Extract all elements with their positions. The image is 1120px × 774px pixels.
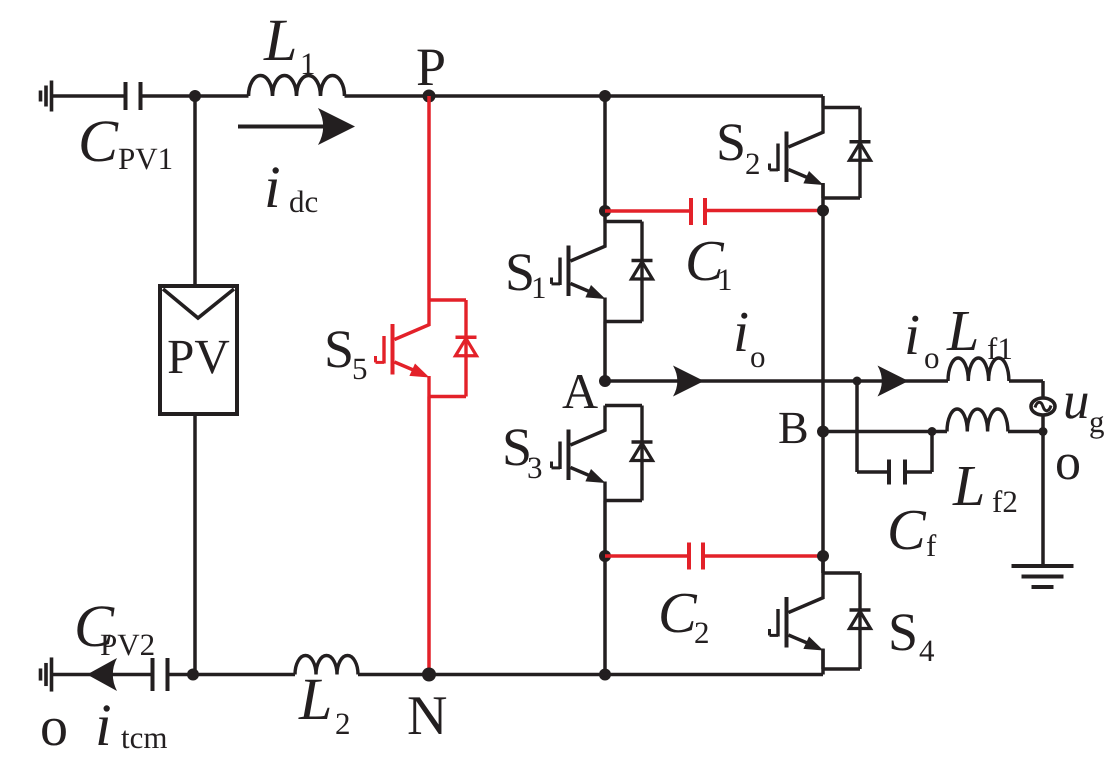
label P (416, 37, 446, 97)
node junction C1 tap (right) (817, 205, 829, 217)
capacitor C_f branch right (905, 432, 932, 473)
label i_tcm (95, 692, 168, 758)
svg-text:i: i (733, 299, 749, 364)
label S1 (505, 242, 547, 305)
AC grid source u_g (1031, 398, 1055, 415)
ground (top-left) (41, 81, 52, 112)
svg-text:C: C (78, 108, 119, 174)
arrow i_dc (238, 108, 355, 145)
wire L_f2 to grid source (1008, 430, 1043, 434)
node junction top rail at S1 branch (599, 90, 611, 102)
svg-text:L: L (298, 666, 332, 732)
svg-text:tcm: tcm (121, 720, 168, 755)
svg-text:A: A (562, 363, 598, 419)
transistor S2 (IGBT with antiparallel diode) (770, 96, 871, 198)
svg-text:u: u (1063, 372, 1090, 430)
wire S3 branch to bottom rail (603, 556, 607, 675)
svg-text:1: 1 (531, 270, 547, 305)
node B (817, 426, 829, 438)
inductor L1 (249, 76, 345, 97)
capacitor C1 (red) wire left (605, 209, 691, 213)
svg-text:B: B (778, 402, 809, 453)
arrow i_o (first) (673, 366, 704, 397)
label S4 (888, 602, 935, 668)
inductor L_f1 (948, 358, 1009, 381)
label C_f (887, 497, 937, 563)
wire node B to L_f2 (823, 430, 947, 434)
svg-text:1: 1 (717, 262, 733, 297)
arrow i_o (second) (878, 366, 909, 397)
capacitor C2 (red) wire left (605, 554, 689, 558)
svg-text:2: 2 (745, 146, 761, 181)
node junction C1 tap (left) (599, 205, 611, 217)
svg-text:N: N (407, 685, 447, 747)
capacitor C2 (red) wire right (703, 554, 823, 558)
svg-text:o: o (40, 696, 68, 758)
svg-text:f2: f2 (992, 484, 1018, 519)
ground (bottom-left) (41, 657, 52, 691)
capacitor C_PV2 (153, 658, 168, 691)
label PV (167, 329, 230, 384)
capacitor C1 (red) wire right (705, 209, 823, 213)
label C1 (685, 228, 733, 297)
wire S5 emitter (red) to N (427, 397, 431, 675)
svg-text:i: i (904, 302, 920, 367)
svg-text:4: 4 (919, 633, 935, 668)
label L_f1 (946, 298, 1013, 366)
inductor L2 (295, 656, 358, 675)
svg-text:C: C (887, 497, 927, 562)
wire bottom rail: C_PV2 to junction (168, 673, 196, 677)
node junction C2 tap (left) (599, 550, 611, 562)
wire top rail: L1 to node P (345, 94, 430, 98)
label L1 (263, 7, 316, 81)
capacitor C_f branch left (857, 381, 889, 472)
ground (bottom-right) (1012, 566, 1074, 587)
label o (grid neutral) (1055, 434, 1081, 491)
svg-text:2: 2 (694, 615, 710, 650)
svg-text:S: S (888, 602, 918, 662)
svg-text:f1: f1 (987, 331, 1013, 366)
wire top rail: junction to L1 (195, 94, 249, 98)
capacitor C1 (red) plates (691, 198, 705, 225)
label L2 (298, 666, 351, 741)
svg-text:o: o (1055, 434, 1081, 491)
label N (407, 685, 447, 747)
node junction at PV branch bottom (187, 669, 199, 681)
svg-text:L: L (946, 298, 979, 363)
svg-text:PV: PV (167, 329, 230, 384)
label C_PV1 (78, 108, 173, 176)
svg-text:f: f (926, 528, 937, 563)
PV panel box (160, 286, 237, 414)
transistor S5 (red IGBT with antiparallel diode) (376, 300, 477, 397)
label A (562, 363, 598, 419)
wire S4 emitter to bottom rail (821, 649, 825, 675)
transistor S1 (IGBT with antiparallel diode) (552, 222, 653, 322)
node N (422, 668, 436, 682)
wire bottom rail: N to S4 corner (429, 673, 823, 677)
svg-text:S: S (716, 112, 746, 172)
svg-text:3: 3 (527, 450, 543, 485)
node junction at PV branch top (189, 90, 201, 102)
wire top rail: ground to C_PV1 (52, 94, 126, 98)
node junction C_f tap (right) (928, 427, 937, 436)
inductor L_f2 (947, 409, 1008, 432)
svg-text:PV1: PV1 (118, 141, 173, 176)
svg-text:C: C (658, 580, 698, 645)
node junction C2 tap (right) (817, 550, 829, 562)
label C2 (658, 580, 710, 650)
svg-text:i: i (264, 154, 281, 220)
svg-text:i: i (95, 692, 112, 758)
label i_dc (264, 154, 318, 220)
label L_f2 (952, 453, 1018, 519)
label S2 (716, 112, 761, 181)
label i_o (first) (733, 299, 766, 374)
label i_o (second) (904, 302, 940, 375)
svg-text:o: o (750, 339, 766, 374)
svg-text:L: L (952, 453, 985, 518)
svg-text:PV2: PV2 (100, 627, 155, 662)
wire L_f1 to grid source corner (1009, 381, 1043, 399)
wire S1 emitter to node A (603, 322, 607, 382)
wire PV branch bottom (193, 414, 197, 675)
node junction bottom rail at S3 branch (599, 669, 611, 681)
svg-text:g: g (1089, 404, 1105, 439)
label B (778, 402, 809, 453)
capacitor C2 (red) plates (689, 543, 703, 570)
svg-text:1: 1 (300, 46, 316, 81)
wire S5 collector (red) from P (427, 96, 431, 300)
node junction C_f tap (left) (853, 377, 862, 386)
node junction at grid source (1039, 427, 1048, 436)
svg-text:o: o (924, 340, 940, 375)
wire output node A to L_f1 (605, 379, 948, 383)
capacitor C_PV1 (126, 82, 141, 110)
svg-text:S: S (324, 319, 354, 379)
svg-text:P: P (416, 37, 446, 97)
svg-text:dc: dc (289, 184, 318, 219)
capacitor C_f plates (889, 460, 905, 485)
label o (bottom-left) (40, 696, 68, 758)
label S5 (324, 319, 368, 386)
PV panel chevron (163, 289, 234, 318)
node P (423, 90, 436, 103)
wire top rail: P to S2 corner (429, 94, 823, 98)
wire bottom rail: ground to C_PV2 (52, 673, 153, 677)
svg-text:5: 5 (352, 351, 368, 386)
arrow i_tcm (points left) (87, 658, 117, 691)
wire S2 emitter down B column (821, 183, 825, 573)
wire S1 branch from top rail (603, 96, 607, 222)
transistor S3 (IGBT with antiparallel diode) (552, 406, 653, 501)
wire top rail: C_PV1 to junction (141, 94, 196, 98)
label C_PV2 (74, 593, 155, 662)
label u_g (1063, 372, 1105, 439)
svg-text:L: L (263, 7, 297, 73)
wire bottom rail: L2 to node N (358, 673, 429, 677)
wire bottom rail: junction to L2 (195, 673, 295, 677)
wire PV branch top (193, 96, 197, 287)
wire S3 emitter to C2 junction (603, 501, 607, 557)
svg-text:2: 2 (335, 706, 351, 741)
label S3 (502, 417, 543, 485)
wire grid source to ground (1041, 415, 1045, 566)
transistor S4 (IGBT with antiparallel diode) (770, 556, 871, 669)
node A (599, 375, 611, 387)
